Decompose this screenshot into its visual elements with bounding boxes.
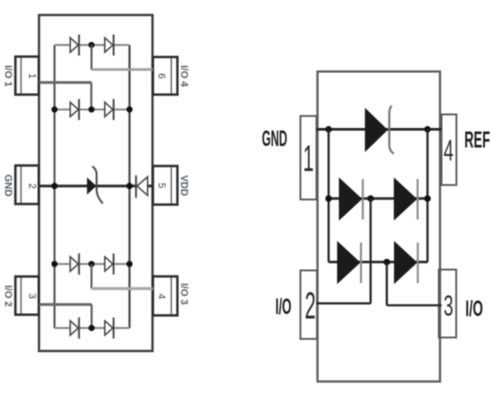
svg-text:I/O 1: I/O 1: [2, 65, 13, 87]
wire to pin 2: [317, 199, 371, 304]
diode D6: [105, 254, 114, 275]
diode D4: [105, 99, 114, 120]
wire row 4: [55, 327, 130, 329]
wire row 3 U2: [329, 261, 428, 263]
package body U2: [318, 72, 441, 382]
svg-text:I/O: I/O: [465, 297, 483, 321]
diode D13: [395, 242, 418, 283]
diode D10: [339, 179, 362, 220]
junction row2 middle U2: [367, 195, 374, 202]
svg-text:3: 3: [444, 290, 454, 323]
svg-text:3: 3: [26, 293, 37, 299]
svg-text:1: 1: [303, 138, 314, 179]
pin 4 box: [153, 276, 178, 315]
junction mid left: [51, 183, 57, 189]
right rail U2: [426, 129, 428, 262]
svg-text:6: 6: [156, 73, 167, 79]
junction row2 left: [51, 106, 57, 112]
wire row 2: [55, 109, 130, 111]
wire from pin 3: [39, 305, 92, 329]
junction top right: [424, 126, 431, 133]
pin 5 box: [153, 166, 178, 205]
wire to pin 6: [92, 45, 153, 70]
svg-text:4: 4: [156, 294, 167, 300]
junction row3 left: [51, 261, 57, 267]
pin 2 box: [15, 166, 38, 205]
junction row1 middle: [88, 42, 94, 48]
diode D1: [70, 35, 79, 56]
left rail U2: [328, 129, 330, 262]
svg-text:2: 2: [305, 286, 316, 327]
pin 1 box: [300, 116, 316, 200]
pin 6 box: [153, 57, 178, 95]
svg-text:I/O 4: I/O 4: [178, 65, 189, 87]
pin 4 box: [442, 114, 457, 185]
svg-text:I/O 3: I/O 3: [178, 283, 189, 305]
svg-text:GND: GND: [262, 126, 287, 151]
left rail: [53, 45, 55, 328]
junction row4 middle: [89, 325, 95, 331]
diode D11: [394, 179, 417, 220]
svg-text:2: 2: [26, 183, 37, 189]
pin 2 box: [300, 270, 317, 339]
junction row3 middle U2: [384, 259, 391, 266]
wire to pin 4: [92, 264, 153, 289]
right rail: [128, 45, 130, 328]
diode D12: [338, 242, 361, 283]
wire GND to VDD middle row: [39, 185, 153, 188]
junction row3 right: [126, 261, 132, 267]
junction top left: [325, 126, 332, 133]
junction row3 middle: [88, 261, 94, 267]
junction row2 left U2: [325, 195, 332, 202]
svg-text:VDD: VDD: [178, 175, 189, 196]
junction row2 right: [126, 106, 132, 112]
wire to pin 3: [387, 262, 442, 305]
wire row 1: [55, 44, 130, 46]
diode D3: [70, 99, 79, 120]
junction mid right: [126, 183, 132, 189]
wire top row GND-REF: [317, 128, 442, 131]
pin 1 box: [15, 57, 38, 95]
pin 3 box: [439, 270, 456, 338]
zener diode Z2: [365, 106, 393, 154]
zener diode Z1: [88, 166, 103, 203]
svg-text:4: 4: [444, 135, 454, 168]
svg-text:REF: REF: [464, 127, 490, 153]
svg-text:GND: GND: [2, 174, 13, 196]
svg-text:I/O 2: I/O 2: [2, 285, 13, 307]
junction row2 middle: [88, 106, 94, 112]
diode D7: [70, 318, 79, 339]
junction row2 right U2: [424, 195, 431, 202]
svg-text:1: 1: [26, 73, 37, 79]
diode D5: [70, 254, 79, 275]
wire from pin 1: [39, 83, 92, 110]
diode D9: [136, 175, 148, 197]
wire row 3: [55, 263, 130, 265]
svg-text:I/O: I/O: [275, 294, 291, 319]
wire row 2 U2: [329, 197, 428, 199]
svg-text:5: 5: [156, 183, 167, 189]
diode D8: [105, 318, 114, 339]
diode D2: [105, 35, 114, 56]
package body U1: [39, 15, 153, 351]
pin 3 box: [15, 277, 38, 315]
